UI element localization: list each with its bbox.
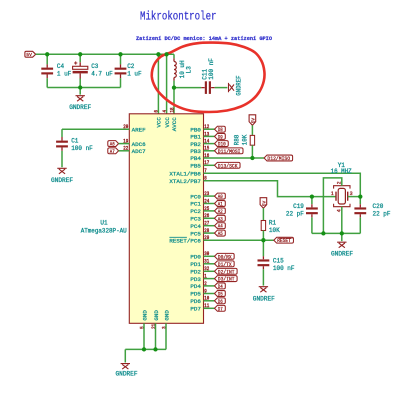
pin PB0 name: [190, 126, 201, 133]
pin GND name 2: [153, 310, 160, 321]
wire pin PB2 stub: [204, 143, 215, 145]
wire AREF net: [62, 128, 129, 130]
net label D10: [215, 141, 229, 148]
svg-text:D11/MOSI: D11/MOSI: [218, 148, 241, 155]
pin number 30: [204, 251, 209, 257]
wire GND pin 21: [155, 323, 157, 349]
wire PB4 net D12/MISO: [204, 157, 265, 159]
svg-text:XTAL2/PB7: XTAL2/PB7: [169, 178, 201, 185]
label L3 name: [185, 66, 192, 73]
svg-text:4: 4: [162, 110, 168, 113]
svg-text:PB0: PB0: [190, 126, 201, 133]
net label A6: [108, 141, 119, 148]
wire C1 top lead: [61, 129, 63, 137]
wire cap ground bus: [47, 87, 120, 89]
wire C2 bottom lead: [120, 78, 122, 87]
svg-text:6: 6: [154, 110, 160, 113]
net label D2/INT: [215, 268, 238, 275]
ground GNDREF right of C11: [229, 75, 243, 95]
label R88 value: [242, 134, 249, 145]
pin PC5 name: [190, 230, 201, 237]
resistor R1: [261, 221, 265, 231]
svg-text:GNDREF: GNDREF: [235, 75, 242, 95]
svg-text:GNDREF: GNDREF: [253, 296, 275, 303]
svg-text:A0: A0: [218, 193, 223, 200]
wire C20 bottom lead: [359, 217, 361, 233]
capacitor C1: [56, 137, 68, 151]
pin number 10: [204, 296, 209, 302]
pin XTAL2/PB7 name: [169, 178, 201, 185]
label R1 name: [269, 220, 276, 227]
label C4: [57, 63, 72, 77]
capacitor C20: [354, 204, 366, 217]
svg-text:D3/INT: D3/INT: [218, 276, 235, 283]
svg-text:PD3: PD3: [190, 276, 201, 283]
wire pin PB5 stub: [204, 164, 215, 166]
svg-text:GND: GND: [153, 310, 160, 321]
svg-text:AVCC: AVCC: [171, 117, 178, 131]
label Y1 name: [338, 162, 345, 169]
svg-text:D13/SCK: D13/SCK: [218, 162, 238, 169]
label L3 value: [179, 60, 186, 78]
pin number 19: [123, 138, 128, 144]
pin number 11: [204, 303, 209, 309]
svg-text:D5: D5: [218, 290, 223, 297]
net label D12/MISO: [264, 155, 293, 162]
svg-text:PD7: PD7: [190, 306, 201, 313]
resistor R88: [250, 135, 254, 145]
svg-text:1 uF: 1 uF: [57, 71, 72, 78]
svg-text:PD0: PD0: [190, 254, 201, 261]
title: [140, 10, 217, 24]
pin number 4: [162, 110, 168, 113]
pin PC3 name: [190, 216, 201, 223]
pin number 3: [161, 326, 167, 329]
wire XTAL1 net: [204, 173, 361, 196]
svg-text:5V: 5V: [261, 201, 267, 207]
label U1 name: [100, 220, 108, 227]
net label D6: [215, 298, 226, 305]
svg-text:4.7 uF: 4.7 uF: [91, 71, 113, 78]
wire GND bus: [125, 348, 166, 350]
pin GND name 3: [163, 310, 170, 321]
pin VCC name 1: [156, 117, 163, 128]
node junction VCC1: [156, 52, 160, 56]
svg-text:D8: D8: [218, 126, 223, 133]
svg-text:D12/MISO: D12/MISO: [267, 155, 290, 162]
svg-text:U1: U1: [100, 220, 108, 227]
svg-text:PC0: PC0: [190, 193, 201, 200]
svg-text:D4: D4: [218, 283, 223, 290]
node junction case loop: [321, 231, 325, 235]
svg-text:22 pF: 22 pF: [373, 211, 391, 218]
wire C15 bottom lead: [262, 269, 264, 285]
svg-text:PB5: PB5: [190, 163, 201, 170]
pin PD7 name: [190, 306, 201, 313]
svg-text:VCC: VCC: [164, 117, 171, 128]
svg-text:C15: C15: [273, 258, 284, 265]
net label D11/MOSI: [215, 148, 244, 155]
svg-text:C2: C2: [127, 63, 134, 70]
svg-text:16 MHZ: 16 MHZ: [331, 168, 352, 175]
pin PB4 name: [190, 155, 201, 162]
node junction RESET: [261, 238, 265, 242]
net label D13/SCK: [215, 162, 241, 169]
svg-text:PD4: PD4: [190, 283, 201, 290]
pin number 9: [204, 288, 207, 294]
capacitor C4: [41, 64, 53, 78]
node junction VCC2: [164, 52, 168, 56]
pin PD6 name: [190, 298, 201, 305]
net label D8: [215, 126, 226, 133]
pin number 25: [204, 206, 209, 212]
svg-text:PC4: PC4: [190, 223, 201, 230]
label C15: [273, 258, 295, 272]
svg-text:PB2: PB2: [190, 141, 201, 148]
svg-text:ATmega328P-AU: ATmega328P-AU: [81, 227, 127, 234]
label C2: [127, 63, 142, 77]
wire GND down: [124, 349, 126, 362]
ground GNDREF bottom: [116, 364, 138, 378]
wire 5V to R1: [262, 208, 264, 220]
wire Y1 right lead: [348, 196, 361, 198]
svg-text:A5: A5: [218, 230, 223, 237]
pin number 1 of Y1: [331, 191, 334, 197]
wire pin PD5 stub: [204, 293, 215, 295]
pin PD4 name: [190, 283, 201, 290]
net label A0: [215, 193, 226, 200]
node junction R88/PB4: [250, 156, 254, 160]
wire 5V rail: [36, 53, 174, 55]
svg-text:C1: C1: [71, 137, 78, 144]
supply +5V tag above R88: [249, 115, 256, 126]
crystal Y1: [334, 186, 350, 207]
svg-text:R1: R1: [269, 220, 276, 227]
net label A3: [215, 215, 226, 222]
svg-text:C4: C4: [57, 63, 64, 70]
pin number 2 of Y1: [337, 181, 343, 184]
inductor L3: [174, 58, 176, 80]
svg-text:D6: D6: [218, 298, 223, 305]
label C19: [286, 203, 304, 217]
pin number 15: [204, 146, 209, 152]
net label A1: [215, 200, 226, 207]
svg-text:5V: 5V: [26, 52, 32, 58]
wire XTAL2 net: [204, 181, 336, 197]
label C11 name: [202, 69, 209, 80]
svg-text:100 nF: 100 nF: [208, 58, 215, 80]
svg-text:10K: 10K: [269, 227, 280, 234]
pin AVCC name: [171, 117, 178, 131]
svg-text:D0/RX: D0/RX: [218, 253, 232, 260]
svg-text:C20: C20: [373, 203, 384, 210]
wire Y1 bottom stub: [341, 207, 343, 234]
wire pin PC3 stub: [204, 217, 215, 219]
svg-text:D9: D9: [218, 133, 223, 140]
net label RESET: [274, 237, 294, 244]
wire C15 top lead: [262, 240, 264, 256]
svg-text:5V: 5V: [250, 118, 256, 124]
pin number 24: [204, 198, 209, 204]
wire pin PC4 stub: [204, 225, 215, 227]
label C1: [71, 137, 93, 151]
net label A2: [215, 208, 226, 215]
net label D1/TX: [215, 261, 235, 268]
pin XTAL1/PB6 name: [169, 171, 201, 178]
label U1 value: [81, 227, 127, 234]
net label D3/INT: [215, 276, 238, 283]
wire VCC pin 6: [157, 54, 159, 114]
svg-text:D10: D10: [218, 141, 226, 148]
pin PC0 name: [190, 193, 201, 200]
svg-text:L3: L3: [185, 66, 192, 73]
pin number 5: [139, 326, 145, 329]
wire GND pin 5: [143, 323, 145, 349]
pin number 1: [204, 274, 207, 280]
wire C4 top lead: [46, 54, 48, 64]
pin number 32: [204, 266, 209, 272]
IC U1 ATmega328P-AU body: [129, 114, 203, 323]
node junction gnd bus: [78, 85, 82, 89]
wire pin PB1 stub: [204, 135, 215, 137]
wire L3 bottom lead: [173, 81, 175, 88]
wire R1 to RESET: [262, 231, 264, 241]
pin number 14: [204, 139, 209, 145]
pin ADC6 name: [132, 141, 146, 148]
supply +5V tag P1: [25, 51, 36, 58]
wire pin PD0 stub: [204, 255, 215, 257]
svg-text:1: 1: [331, 191, 334, 197]
net label D5: [215, 290, 226, 297]
wire GND pin 3: [165, 323, 167, 349]
pin PD3 name: [190, 276, 201, 283]
wire AVCC pin 18: [173, 88, 175, 114]
ground GNDREF under C3: [69, 88, 91, 111]
wire C20 top lead: [359, 197, 361, 205]
svg-text:A6: A6: [110, 141, 115, 148]
wire C2 top lead: [120, 54, 122, 64]
node junction L3/C11/AVCC: [172, 85, 176, 89]
pin PD2 name: [190, 269, 201, 276]
pin number 28: [204, 228, 209, 234]
svg-text:PC5: PC5: [190, 230, 201, 237]
svg-text:ADC6: ADC6: [132, 141, 146, 148]
pin number 16: [204, 153, 209, 159]
svg-text:PD6: PD6: [190, 298, 201, 305]
svg-text:PC1: PC1: [190, 201, 201, 208]
svg-text:A7: A7: [110, 148, 115, 155]
node junction Y1 gnd: [340, 231, 344, 235]
svg-text:C3: C3: [91, 63, 98, 70]
wire C1 bottom lead: [61, 151, 63, 167]
wire pin PC1 stub: [204, 203, 215, 205]
pin number 18: [169, 108, 175, 113]
svg-text:Mikrokontroler: Mikrokontroler: [140, 10, 217, 24]
net label A7: [108, 148, 119, 155]
svg-text:AREF: AREF: [132, 126, 146, 133]
net label D7: [215, 305, 226, 312]
node junction XTAL2/C19: [310, 194, 314, 198]
pin number 8: [204, 176, 207, 182]
pin number 17: [204, 160, 209, 166]
node junction C2: [118, 52, 122, 56]
wire VCC pin 4: [166, 54, 168, 114]
svg-text:D7: D7: [218, 305, 223, 312]
pin AREF name: [132, 126, 146, 133]
pin number 29: [204, 235, 209, 241]
wire C11 left lead: [174, 87, 201, 89]
wire pin PC0 stub: [204, 195, 215, 197]
pin number 21: [151, 324, 157, 329]
pin PD5 name: [190, 291, 201, 298]
wire pin PC5 stub: [204, 232, 215, 234]
svg-text:PD1: PD1: [190, 261, 201, 268]
label C11 value: [208, 58, 215, 80]
svg-text:PB1: PB1: [190, 134, 201, 141]
svg-text:10K: 10K: [242, 134, 249, 145]
net label D4: [215, 283, 226, 290]
svg-text:RESET/PC6: RESET/PC6: [169, 237, 201, 244]
svg-text:22 pF: 22 pF: [286, 211, 304, 218]
svg-text:R88: R88: [234, 134, 241, 145]
capacitor C15: [258, 256, 270, 269]
pin number 2: [204, 281, 207, 287]
wire C3 top lead: [79, 54, 81, 62]
pin PD1 name: [190, 261, 201, 268]
node junction C3: [78, 52, 82, 56]
svg-text:A2: A2: [218, 208, 223, 215]
pin number 22: [123, 146, 128, 152]
svg-text:PD5: PD5: [190, 291, 201, 298]
svg-text:GNDREF: GNDREF: [331, 250, 353, 257]
pin PB1 name: [190, 134, 201, 141]
pin number 3 of Y1: [350, 191, 353, 197]
wire C19 top lead: [311, 197, 313, 205]
pin PB5 name: [190, 163, 201, 170]
svg-text:GND: GND: [163, 310, 170, 321]
svg-text:Zatízení DC/DC menice: 14mA +: Zatízení DC/DC menice: 14mA + zatízení G…: [136, 35, 273, 42]
svg-text:GNDREF: GNDREF: [69, 104, 91, 111]
wire C4 bottom lead: [46, 78, 48, 87]
pin ADC7 name: [132, 148, 146, 155]
wire pin PD7 stub: [204, 307, 215, 309]
wire R88 to PB4: [251, 145, 253, 158]
svg-text:GND: GND: [141, 310, 148, 321]
pin VCC name 2: [164, 117, 171, 128]
pin GND name 1: [141, 310, 148, 321]
pin PC1 name: [190, 201, 201, 208]
pin number 27: [204, 221, 209, 227]
svg-text:PC2: PC2: [190, 208, 201, 215]
ground GNDREF under Y1: [331, 233, 353, 257]
svg-text:PC3: PC3: [190, 216, 201, 223]
annotation red circle: [152, 43, 265, 112]
capacitor C19: [306, 204, 318, 217]
wire pin PB0 stub: [204, 128, 215, 130]
wire L3 top lead: [173, 54, 175, 58]
pin number 7: [204, 168, 207, 174]
svg-text:100 nF: 100 nF: [273, 265, 295, 272]
svg-text:D1/TX: D1/TX: [218, 261, 232, 268]
pin number 26: [204, 213, 209, 219]
net label D9: [215, 133, 226, 140]
pin number 6: [154, 110, 160, 113]
svg-text:PD2: PD2: [190, 269, 201, 276]
pin number 20: [123, 124, 128, 130]
wire 5V to R88: [251, 125, 253, 135]
wire ADC6 stub: [119, 143, 130, 145]
svg-text:100 nF: 100 nF: [71, 145, 93, 152]
net label D0/RX: [215, 253, 235, 260]
label Y1 value: [331, 168, 352, 175]
wire ADC7 stub: [119, 150, 130, 152]
node junction GND 1: [142, 347, 146, 351]
svg-text:D2/INT: D2/INT: [218, 268, 235, 275]
pin PC4 name: [190, 223, 201, 230]
wire pin PB3 stub: [204, 150, 215, 152]
svg-text:A1: A1: [218, 200, 223, 207]
wire C11 right lead: [215, 87, 228, 89]
svg-text:A4: A4: [218, 223, 223, 230]
pin PB2 name: [190, 141, 201, 148]
svg-text:PB3: PB3: [190, 148, 201, 155]
label R1 value: [269, 227, 280, 234]
svg-text:18: 18: [169, 108, 175, 113]
node junction XTAL1/C20: [358, 194, 362, 198]
ground GNDREF under C1: [51, 168, 73, 184]
pin PB3 name: [190, 148, 201, 155]
svg-text:VCC: VCC: [156, 117, 163, 128]
wire pin PD3 stub: [204, 278, 215, 280]
svg-text:XTAL1/PB6: XTAL1/PB6: [169, 171, 201, 178]
wire C3 bottom lead: [79, 79, 81, 88]
supply +5V tag above R1: [260, 198, 267, 209]
wire C19 bottom lead: [311, 217, 313, 233]
capacitor C11: [201, 81, 214, 94]
label R88 name: [234, 134, 241, 145]
wire pin PC2 stub: [204, 210, 215, 212]
capacitor C3: [73, 61, 88, 78]
svg-text:C19: C19: [293, 203, 304, 210]
pin RESET/PC6 name: [169, 237, 201, 244]
wire RESET net: [204, 239, 274, 241]
svg-text:PB4: PB4: [190, 155, 201, 162]
svg-text:GNDREF: GNDREF: [116, 371, 138, 378]
pin number 12: [204, 124, 209, 130]
capacitor C2: [115, 64, 127, 78]
pin PC2 name: [190, 208, 201, 215]
wire pin PD1 stub: [204, 263, 215, 265]
wire pin PD2 stub: [204, 270, 215, 272]
pin PD0 name: [190, 254, 201, 261]
node junction C4: [45, 52, 49, 56]
svg-text:GNDREF: GNDREF: [51, 177, 73, 184]
svg-text:A3: A3: [218, 215, 223, 222]
wire pin PD6 stub: [204, 300, 215, 302]
svg-text:1 uF: 1 uF: [127, 71, 142, 78]
pin number 31: [204, 259, 209, 265]
label C3: [91, 63, 113, 77]
wire Y1 case loop: [323, 178, 341, 234]
subtitle note: [136, 35, 273, 42]
wire crystal ground bus: [312, 232, 360, 234]
pin number 4 of Y1: [337, 209, 343, 212]
net label A5: [215, 230, 226, 237]
pin number 23: [204, 191, 209, 197]
wire pin PD4 stub: [204, 285, 215, 287]
net label A4: [215, 223, 226, 230]
pin number 13: [204, 131, 209, 137]
